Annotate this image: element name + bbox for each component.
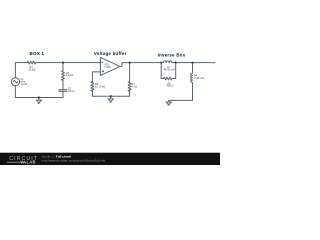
wire op-amp output <box>120 63 161 67</box>
logo wire line <box>7 161 26 163</box>
node ground tap box1 <box>38 96 40 98</box>
ground GND1 <box>36 98 41 103</box>
voltage source V1 <box>11 78 19 86</box>
svg-text:http://www.circuitlab.com/circ: http://www.circuitlab.com/circuit/c9kryh… <box>42 159 106 163</box>
ground GND2 <box>108 96 113 101</box>
wire V1 bottom <box>14 86 16 98</box>
node junction L2 tap <box>191 61 193 63</box>
wire rail right of L1 <box>176 62 215 64</box>
wire C1 bottom <box>62 91 64 97</box>
svg-text:4 kΩ: 4 kΩ <box>131 85 136 89</box>
footer bar <box>0 153 220 165</box>
node junction R1/R2 branch <box>62 61 64 63</box>
node junction L1 left <box>160 62 162 64</box>
wire R2 to C1 <box>62 79 64 90</box>
svg-text:10.10 kΩ: 10.10 kΩ <box>95 85 106 89</box>
resistor R1 <box>27 61 35 64</box>
svg-text:2.36 mH: 2.36 mH <box>194 76 204 80</box>
svg-text:BOX 1: BOX 1 <box>30 51 45 56</box>
wire L2 top <box>192 63 194 74</box>
wire main rail left of R1 <box>15 62 27 64</box>
svg-text:10 µF: 10 µF <box>68 89 75 93</box>
wire box1 bottom rail <box>15 97 63 99</box>
svg-text:Voltage buffer: Voltage buffer <box>94 51 127 56</box>
node junction output/R4 branch <box>128 61 130 63</box>
svg-text:10 kΩ: 10 kΩ <box>28 68 35 72</box>
logo resistor zigzag <box>20 161 25 163</box>
wire R3 bottom <box>91 90 93 97</box>
wire R2 branch top <box>62 63 64 71</box>
wire R4 branch <box>129 63 131 82</box>
resistor R4 <box>128 82 131 92</box>
capacitor C1 <box>59 90 67 92</box>
svg-text:OP1: OP1 <box>104 64 109 66</box>
node ground tap mid <box>110 95 112 97</box>
svg-text:Inverse Box: Inverse Box <box>158 53 186 58</box>
wire L1 right drop <box>175 63 177 79</box>
wire op-amp plus input stub <box>92 72 100 82</box>
node junction dots <box>38 61 194 98</box>
wire L1 left drop <box>160 63 162 79</box>
ground GND3 <box>166 100 171 104</box>
wire R4 bottom <box>129 90 131 97</box>
svg-text:TL081: TL081 <box>104 67 111 69</box>
op-amp minus sign <box>102 61 103 63</box>
op-amp plus sign <box>102 71 103 72</box>
svg-text:48.45 mH: 48.45 mH <box>164 68 175 72</box>
resistor R5 <box>161 77 176 80</box>
wire mid bottom rail <box>92 95 129 97</box>
op-amp OP1 triangle <box>100 57 120 75</box>
wire V1 top <box>14 63 16 78</box>
svg-text:900 Ω: 900 Ω <box>166 84 173 88</box>
node junction L1 right <box>175 62 177 64</box>
inductor L1 <box>161 61 176 63</box>
resistor R2 <box>62 71 65 81</box>
inductor L2 <box>191 73 193 82</box>
wire rail R1 to op-amp <box>36 62 101 64</box>
svg-text:LAB: LAB <box>27 160 36 165</box>
svg-text:1 kHz: 1 kHz <box>20 82 27 86</box>
resistor R3 <box>91 82 94 92</box>
svg-text:2.2 kΩ: 2.2 kΩ <box>66 73 74 77</box>
wire L2 bottom <box>169 83 193 101</box>
